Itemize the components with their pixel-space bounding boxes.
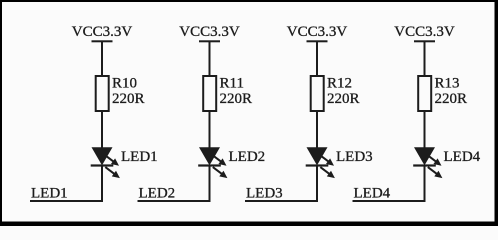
svg-text:LED3: LED3 <box>246 186 283 202</box>
wire VCC bar to resistor R11 top <box>209 41 211 76</box>
wire net LED4 horizontal segment <box>353 200 426 202</box>
wire VCC bar to resistor R13 top <box>424 41 426 76</box>
wire net LED1 horizontal segment <box>30 200 103 202</box>
svg-text:VCC3.3V: VCC3.3V <box>179 24 240 40</box>
LED LED2 symbol (diode triangle + cathode bar) <box>198 147 221 166</box>
power symbol VCC3.3V (net VCC3.3V, circuit 3) <box>287 24 348 42</box>
wire LED LED3 cathode to net wire <box>316 166 318 202</box>
power symbol VCC3.3V (net VCC3.3V, circuit 2) <box>179 24 240 42</box>
svg-text:LED1: LED1 <box>31 186 68 202</box>
wire resistor R10 bottom to LED LED1 anode <box>101 111 103 148</box>
svg-text:R13: R13 <box>435 76 460 92</box>
power symbol VCC3.3V (net VCC3.3V, circuit 4) <box>394 24 455 42</box>
svg-text:VCC3.3V: VCC3.3V <box>72 24 133 40</box>
svg-text:LED2: LED2 <box>139 186 176 202</box>
wire VCC bar to resistor R10 top <box>101 41 103 76</box>
LED LED1 light-emission arrow 2 <box>105 167 120 178</box>
svg-text:LED1: LED1 <box>121 149 158 165</box>
svg-text:R11: R11 <box>220 76 244 92</box>
svg-text:LED4: LED4 <box>354 186 391 202</box>
svg-text:R12: R12 <box>327 76 352 92</box>
LED LED1 light-emission arrow 1 <box>104 155 119 166</box>
svg-text:220R: 220R <box>327 91 360 107</box>
svg-text:VCC3.3V: VCC3.3V <box>287 24 348 40</box>
resistor R10 220R body <box>96 76 109 111</box>
LED LED2 light-emission arrow 2 <box>213 167 228 178</box>
resistor R13 220R body <box>418 76 431 111</box>
LED LED3 symbol (diode triangle + cathode bar) <box>306 147 329 166</box>
wire LED LED2 cathode to net wire <box>209 166 211 202</box>
wire VCC bar to resistor R12 top <box>316 41 318 76</box>
svg-text:LED2: LED2 <box>229 149 266 165</box>
wire resistor R12 bottom to LED LED3 anode <box>316 111 318 148</box>
wire net LED2 horizontal segment <box>138 200 211 202</box>
wire resistor R13 bottom to LED LED4 anode <box>424 111 426 148</box>
power symbol VCC3.3V (net VCC3.3V, circuit 1) <box>72 24 133 42</box>
svg-text:LED3: LED3 <box>336 149 373 165</box>
LED LED4 light-emission arrow 2 <box>428 167 443 178</box>
LED LED3 light-emission arrow 2 <box>320 167 335 178</box>
wire LED LED4 cathode to net wire <box>424 166 426 202</box>
wire resistor R11 bottom to LED LED2 anode <box>209 111 211 148</box>
LED LED4 symbol (diode triangle + cathode bar) <box>413 147 436 166</box>
LED LED1 symbol (diode triangle + cathode bar) <box>91 147 114 166</box>
svg-text:220R: 220R <box>435 91 468 107</box>
LED LED3 light-emission arrow 1 <box>319 155 334 166</box>
svg-text:LED4: LED4 <box>444 149 481 165</box>
resistor R12 220R body <box>311 76 324 111</box>
LED LED4 light-emission arrow 1 <box>427 155 442 166</box>
LED LED2 light-emission arrow 1 <box>212 155 227 166</box>
svg-text:VCC3.3V: VCC3.3V <box>394 24 455 40</box>
svg-text:R10: R10 <box>112 76 137 92</box>
resistor R11 220R body <box>203 76 216 111</box>
svg-text:220R: 220R <box>220 91 253 107</box>
wire net LED3 horizontal segment <box>245 200 318 202</box>
wire LED LED1 cathode to net wire <box>101 166 103 202</box>
svg-text:220R: 220R <box>112 91 145 107</box>
